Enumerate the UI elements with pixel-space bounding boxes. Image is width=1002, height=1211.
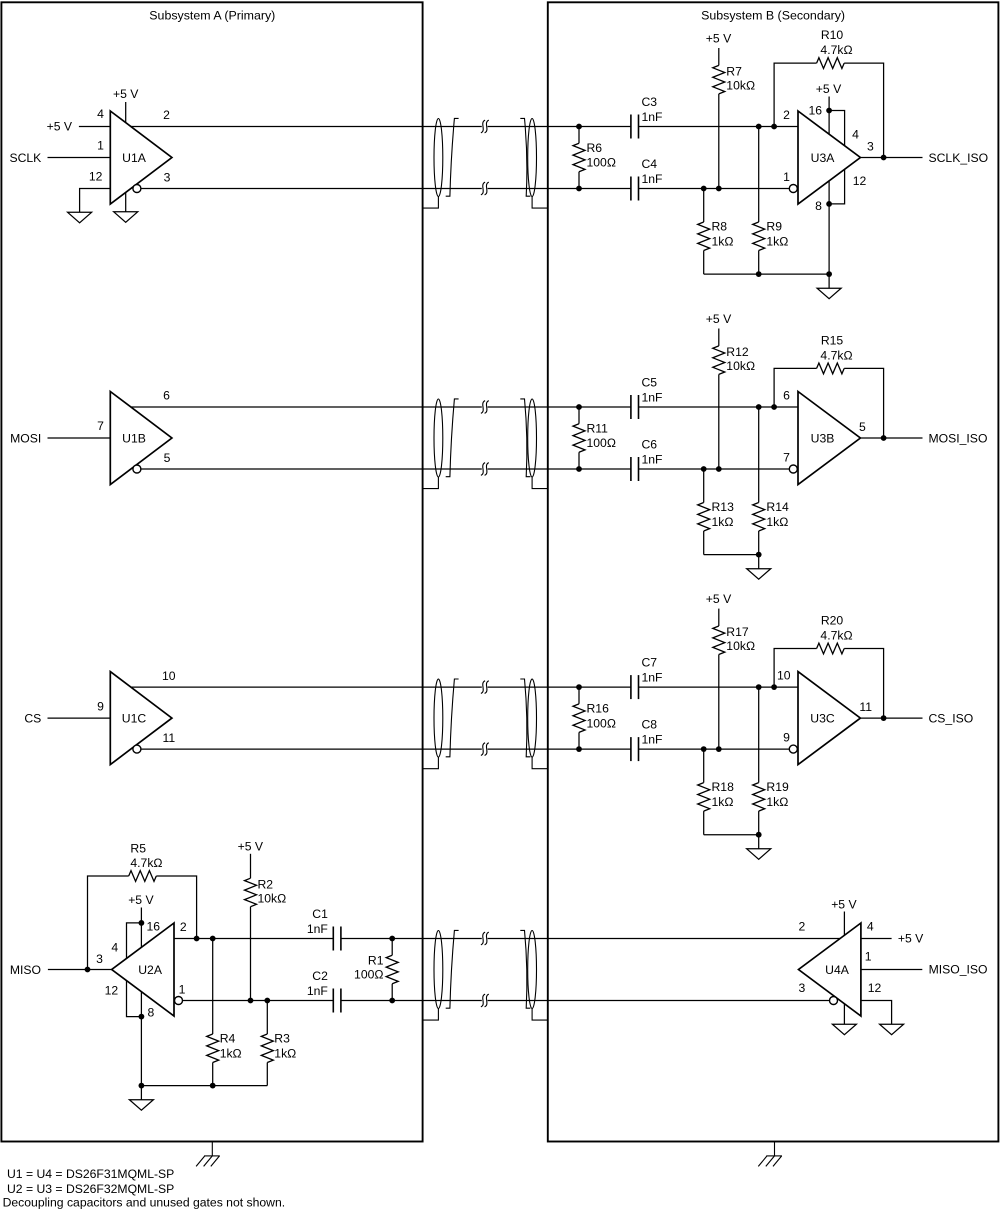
cable row4 left twist ellipse bbox=[434, 931, 443, 1009]
wire ground rail row2 bbox=[704, 554, 759, 556]
svg-text:4: 4 bbox=[97, 107, 104, 121]
resistor R6 termination bbox=[578, 127, 580, 144]
node R20 input junction bbox=[771, 684, 777, 690]
svg-text:10kΩ: 10kΩ bbox=[726, 639, 755, 653]
node R12 junction bbox=[716, 466, 722, 472]
node R5 junction bbox=[194, 936, 200, 942]
wire VCC pin 16 bbox=[828, 97, 830, 135]
wire U2A input A bbox=[174, 938, 333, 940]
wire pin 12 enable (U2A) bbox=[127, 981, 142, 1017]
resistor R5 feedback bbox=[88, 876, 129, 970]
svg-text:R2: R2 bbox=[258, 877, 274, 891]
wire pin 4 enable to +5V bbox=[79, 126, 110, 128]
svg-text:R19: R19 bbox=[766, 780, 789, 794]
cable row1 left shield drain wire bbox=[423, 197, 438, 209]
U4A inverting output bubble bbox=[830, 997, 838, 1005]
svg-text:Subsystem A (Primary): Subsystem A (Primary) bbox=[149, 9, 275, 23]
svg-text:R8: R8 bbox=[712, 220, 728, 234]
svg-text:U1B: U1B bbox=[122, 431, 146, 445]
receiver U3A bbox=[798, 111, 860, 204]
wire U3C input B bbox=[639, 748, 790, 750]
svg-text:7: 7 bbox=[97, 419, 104, 433]
svg-text:+5 V: +5 V bbox=[238, 839, 264, 853]
svg-text:C1: C1 bbox=[312, 907, 328, 921]
svg-text:2: 2 bbox=[799, 920, 806, 934]
svg-text:3: 3 bbox=[96, 952, 103, 966]
svg-text:1kΩ: 1kΩ bbox=[712, 515, 734, 529]
svg-text:+5 V: +5 V bbox=[706, 312, 732, 326]
svg-text:1kΩ: 1kΩ bbox=[766, 795, 788, 809]
svg-text:16: 16 bbox=[808, 104, 822, 118]
node pin16 junction (U2A) bbox=[139, 920, 145, 926]
driver U4A bbox=[799, 923, 861, 1016]
svg-text:6: 6 bbox=[783, 389, 790, 403]
node rail junction R14 bbox=[756, 552, 762, 558]
svg-text:CS: CS bbox=[24, 711, 41, 725]
svg-text:U3C: U3C bbox=[810, 711, 835, 725]
node R8 junction bbox=[701, 186, 707, 192]
node R13 junction bbox=[701, 466, 707, 472]
resistor R19 pulldown bbox=[758, 687, 760, 783]
svg-text:+5 V: +5 V bbox=[706, 592, 732, 606]
svg-text:4: 4 bbox=[852, 128, 859, 142]
resistor R13 pulldown bbox=[703, 469, 705, 503]
wire pin 4 enable bbox=[829, 111, 845, 146]
ground (row 2) bbox=[747, 569, 771, 580]
svg-text:+5 V: +5 V bbox=[706, 31, 732, 45]
svg-text:R9: R9 bbox=[766, 220, 782, 234]
svg-text:1nF: 1nF bbox=[307, 984, 328, 998]
wire row3 pair to caps bottom bbox=[488, 748, 631, 750]
svg-text:R16: R16 bbox=[587, 701, 610, 715]
svg-text:10: 10 bbox=[777, 669, 791, 683]
wire row1 pair to caps top bbox=[488, 126, 631, 128]
svg-text:11: 11 bbox=[162, 731, 175, 745]
wire U3A input A bbox=[639, 126, 799, 128]
svg-text:R5: R5 bbox=[130, 841, 146, 855]
wire U4A input D top bbox=[488, 938, 840, 940]
svg-text:+5 V: +5 V bbox=[831, 897, 857, 911]
cable row3 left shield arc bbox=[446, 679, 459, 757]
cable row1 left twist ellipse bbox=[434, 119, 443, 197]
ground (U1A pin 8) bbox=[114, 212, 138, 223]
capacitor C4 bbox=[630, 177, 632, 201]
wire ground rail row4 bbox=[141, 1085, 267, 1087]
svg-text:4.7kΩ: 4.7kΩ bbox=[820, 628, 852, 642]
wire break top row1 bbox=[481, 120, 485, 133]
wire pin 12 enable bbox=[829, 169, 845, 204]
wire pin 12 to ground (U4A) bbox=[861, 1001, 892, 1025]
cable row4 right twist ellipse bbox=[528, 931, 537, 1009]
ground (U2A) bbox=[129, 1100, 153, 1111]
svg-text:4.7kΩ: 4.7kΩ bbox=[820, 348, 852, 362]
wire pin 8 to ground (U4A) bbox=[843, 1004, 845, 1024]
wire pin 8 ground bbox=[828, 181, 830, 274]
svg-text:1kΩ: 1kΩ bbox=[766, 234, 788, 248]
wire U1C output Y bbox=[131, 686, 482, 688]
wire SCLK input bbox=[48, 157, 111, 159]
wire break top row4 bbox=[481, 932, 485, 945]
svg-text:4: 4 bbox=[111, 940, 118, 954]
resistor R17 pullup bbox=[718, 609, 720, 626]
wire VCC pin 16 (U2A) bbox=[140, 908, 142, 948]
cable row3 right shield arc bbox=[520, 679, 530, 757]
svg-text:1kΩ: 1kΩ bbox=[274, 1046, 296, 1060]
svg-text:R15: R15 bbox=[821, 334, 844, 348]
svg-text:4: 4 bbox=[867, 920, 874, 934]
svg-text:1: 1 bbox=[783, 170, 790, 184]
node R15 output junction bbox=[881, 435, 887, 441]
wire ground rail row3 bbox=[704, 834, 759, 836]
wire pin 8 to ground bbox=[125, 192, 127, 211]
svg-text:7: 7 bbox=[783, 451, 790, 465]
svg-text:10kΩ: 10kΩ bbox=[726, 79, 755, 93]
cable row1 left shield arc bbox=[446, 118, 459, 196]
resistor R4 pulldown bbox=[212, 939, 214, 1035]
resistor R12 pullup bbox=[718, 329, 720, 346]
wire U3A input B bbox=[639, 188, 790, 190]
svg-text:R17: R17 bbox=[726, 625, 749, 639]
driver U1B bbox=[110, 392, 172, 485]
U1B inverting output bubble bbox=[133, 465, 141, 473]
wire ground stub row2 bbox=[758, 555, 760, 569]
svg-text:R1: R1 bbox=[368, 953, 384, 967]
U2A inverting input bubble bbox=[175, 997, 183, 1005]
capacitor C1 bbox=[332, 927, 334, 951]
node R7 junction bbox=[716, 186, 722, 192]
driver U1C bbox=[110, 672, 172, 765]
node R11 top junction bbox=[576, 404, 582, 410]
svg-text:R14: R14 bbox=[766, 500, 789, 514]
capacitor C2 bbox=[332, 989, 334, 1013]
capacitor C5 bbox=[630, 395, 632, 419]
node rail junction R19 bbox=[756, 832, 762, 838]
svg-text:U3A: U3A bbox=[811, 151, 836, 165]
U3B inverting input bubble bbox=[789, 465, 797, 473]
node R19 junction bbox=[756, 684, 762, 690]
svg-text:U1C: U1C bbox=[122, 711, 147, 725]
svg-text:C6: C6 bbox=[642, 438, 658, 452]
resistor R8 pulldown bbox=[703, 189, 705, 223]
svg-text:C3: C3 bbox=[642, 95, 658, 109]
wire MOSI input bbox=[48, 437, 111, 439]
svg-text:U2A: U2A bbox=[138, 963, 163, 977]
svg-text:2: 2 bbox=[163, 108, 170, 122]
svg-text:R20: R20 bbox=[821, 614, 844, 628]
wire VCC pin 16 (U4A) bbox=[843, 912, 845, 936]
node U2A output junction bbox=[85, 967, 91, 973]
svg-text:U4A: U4A bbox=[825, 963, 850, 977]
svg-text:MOSI: MOSI bbox=[10, 431, 41, 445]
capacitor C7 bbox=[630, 675, 632, 699]
cable row2 right shield arc bbox=[520, 399, 530, 477]
svg-text:C4: C4 bbox=[642, 157, 658, 171]
wire row3 pair to caps top bbox=[488, 686, 631, 688]
ground (U4A pin 12) bbox=[880, 1024, 904, 1035]
wire pin 4 enable (U4A) bbox=[861, 938, 892, 940]
svg-text:1kΩ: 1kΩ bbox=[766, 515, 788, 529]
wire MISO output bbox=[48, 969, 112, 971]
svg-text:+5 V: +5 V bbox=[128, 893, 154, 907]
wire ground stub row3 bbox=[758, 835, 760, 849]
U1C inverting output bubble bbox=[133, 745, 141, 753]
svg-text:3: 3 bbox=[164, 170, 171, 184]
wire pin 12 to ground bbox=[80, 189, 111, 213]
svg-text:U1 = U4 = DS26F31MQML-SP: U1 = U4 = DS26F31MQML-SP bbox=[7, 1167, 174, 1181]
wire U3B input B bbox=[639, 468, 790, 470]
svg-text:R13: R13 bbox=[712, 500, 735, 514]
wire CS input bbox=[48, 717, 111, 719]
wire row2 pair to caps bottom bbox=[488, 468, 631, 470]
svg-text:1nF: 1nF bbox=[642, 733, 663, 747]
cable row3 right shield drain wire bbox=[532, 757, 548, 769]
node R17 junction bbox=[716, 746, 722, 752]
node R20 output junction bbox=[881, 715, 887, 721]
cable row1 right twist ellipse bbox=[528, 119, 537, 197]
svg-text:8: 8 bbox=[148, 1006, 155, 1020]
node R1 top junction bbox=[389, 936, 395, 942]
svg-text:MISO: MISO bbox=[10, 963, 41, 977]
svg-text:6: 6 bbox=[163, 389, 170, 403]
svg-text:MOSI_ISO: MOSI_ISO bbox=[929, 431, 988, 445]
svg-text:9: 9 bbox=[783, 731, 790, 745]
svg-text:1kΩ: 1kΩ bbox=[712, 795, 734, 809]
wire U1A output Z bbox=[141, 188, 482, 190]
svg-text:1nF: 1nF bbox=[642, 671, 663, 685]
ground (row 3) bbox=[747, 849, 771, 860]
wire break top row3 bbox=[481, 681, 485, 694]
svg-text:C2: C2 bbox=[312, 969, 328, 983]
node rail junction R4 bbox=[210, 1083, 216, 1089]
svg-text:8: 8 bbox=[815, 199, 822, 213]
svg-text:5: 5 bbox=[164, 451, 171, 465]
node R15 input junction bbox=[771, 404, 777, 410]
wire U3A output bbox=[860, 157, 922, 159]
U1A inverting output bubble bbox=[133, 185, 141, 193]
resistor R20 feedback bbox=[774, 649, 817, 688]
resistor R18 pulldown bbox=[703, 749, 705, 783]
svg-text:C7: C7 bbox=[642, 656, 658, 670]
svg-text:2: 2 bbox=[180, 920, 187, 934]
resistor R11 termination bbox=[578, 407, 580, 424]
receiver U3B bbox=[798, 392, 860, 485]
svg-text:CS_ISO: CS_ISO bbox=[929, 711, 974, 725]
U3C inverting input bubble bbox=[789, 745, 797, 753]
svg-text:Subsystem B (Secondary): Subsystem B (Secondary) bbox=[701, 9, 845, 23]
svg-text:1nF: 1nF bbox=[642, 453, 663, 467]
svg-text:3: 3 bbox=[799, 981, 806, 995]
wire row1 pair to caps bottom bbox=[488, 188, 631, 190]
node R11 bottom junction bbox=[576, 466, 582, 472]
wire U3C output bbox=[860, 717, 922, 719]
svg-text:+5 V: +5 V bbox=[898, 932, 924, 946]
wire U1B output Z bbox=[141, 468, 482, 470]
svg-text:+5 V: +5 V bbox=[113, 87, 139, 101]
cable row3 left shield drain wire bbox=[423, 757, 438, 769]
node R4 junction bbox=[210, 936, 216, 942]
svg-text:1: 1 bbox=[179, 983, 186, 997]
svg-text:1: 1 bbox=[97, 139, 104, 153]
node R10 input junction bbox=[771, 124, 777, 130]
chassis ground (subsystem A) bbox=[211, 1142, 213, 1156]
resistor R10 feedback bbox=[774, 63, 817, 126]
cable row4 left shield drain wire bbox=[423, 1009, 438, 1021]
node R1 bottom junction bbox=[389, 998, 395, 1004]
resistor R3 pulldown bbox=[266, 1001, 268, 1035]
node rail junction R9 bbox=[756, 271, 762, 277]
chassis ground (subsystem B) bbox=[774, 1142, 776, 1156]
cable row4 right shield drain wire bbox=[532, 1009, 548, 1021]
svg-text:12: 12 bbox=[853, 174, 867, 188]
svg-text:R7: R7 bbox=[726, 65, 742, 79]
svg-text:1nF: 1nF bbox=[307, 922, 328, 936]
cable row1 right shield arc bbox=[520, 118, 530, 196]
svg-text:10: 10 bbox=[162, 669, 176, 683]
svg-text:3: 3 bbox=[867, 140, 874, 154]
wire ground rail row1 bbox=[704, 273, 829, 275]
svg-text:SCLK_ISO: SCLK_ISO bbox=[929, 151, 989, 165]
node R6 bottom junction bbox=[576, 186, 582, 192]
svg-text:C5: C5 bbox=[642, 376, 658, 390]
svg-text:1: 1 bbox=[865, 950, 872, 964]
svg-text:12: 12 bbox=[105, 983, 119, 997]
svg-text:12: 12 bbox=[868, 981, 882, 995]
node R2 junction bbox=[248, 998, 254, 1004]
wire VCC pin 16 bbox=[125, 102, 127, 123]
subsystem B box bbox=[548, 2, 999, 1141]
wire U3B input A bbox=[639, 406, 799, 408]
svg-text:R12: R12 bbox=[726, 345, 749, 359]
wire ground stub row4 bbox=[140, 1086, 142, 1100]
cable row1 right shield drain wire bbox=[532, 197, 548, 209]
svg-text:R11: R11 bbox=[587, 421, 609, 435]
cable row2 right twist ellipse bbox=[528, 399, 537, 477]
resistor R2 pullup bbox=[250, 854, 252, 878]
wire break bottom row4 bbox=[481, 994, 485, 1007]
node R3 junction bbox=[264, 998, 270, 1004]
svg-text:100Ω: 100Ω bbox=[587, 716, 616, 730]
cable row4 left shield arc bbox=[446, 930, 459, 1008]
resistor R7 pullup bbox=[718, 48, 720, 65]
svg-text:4.7kΩ: 4.7kΩ bbox=[820, 43, 852, 57]
node pin16 junction bbox=[826, 108, 832, 114]
cable row3 left twist ellipse bbox=[434, 679, 443, 757]
node R9 junction bbox=[756, 124, 762, 130]
wire C2 to cable bbox=[341, 1000, 482, 1002]
svg-text:5: 5 bbox=[859, 420, 866, 434]
capacitor C3 bbox=[630, 115, 632, 139]
wire break bottom row1 bbox=[481, 182, 485, 195]
svg-text:R10: R10 bbox=[821, 28, 844, 42]
svg-text:100Ω: 100Ω bbox=[587, 436, 616, 450]
wire U1B output Y bbox=[131, 406, 482, 408]
node rail junction pin8 bbox=[826, 271, 832, 277]
node R10 output junction bbox=[881, 155, 887, 161]
wire ground stub bbox=[828, 274, 830, 288]
svg-text:1kΩ: 1kΩ bbox=[712, 234, 734, 248]
svg-text:10kΩ: 10kΩ bbox=[258, 891, 287, 905]
svg-text:R4: R4 bbox=[220, 1032, 236, 1046]
wire U1A output Y bbox=[131, 126, 482, 128]
resistor R15 feedback bbox=[774, 368, 817, 407]
svg-text:C8: C8 bbox=[642, 718, 658, 732]
svg-text:U3B: U3B bbox=[811, 431, 835, 445]
ground (U4A pin 8) bbox=[832, 1024, 856, 1035]
ground (U3A) bbox=[817, 288, 841, 299]
node rail junction pin8 (U2A) bbox=[139, 1083, 145, 1089]
wire U4A input to bubble bbox=[488, 1000, 831, 1002]
svg-text:12: 12 bbox=[89, 169, 103, 183]
cable row2 left twist ellipse bbox=[434, 399, 443, 477]
ground (U1A pin 12) bbox=[68, 212, 92, 223]
svg-text:9: 9 bbox=[97, 699, 104, 713]
wire pin 4 enable (U2A) bbox=[127, 923, 142, 959]
svg-text:100Ω: 100Ω bbox=[354, 967, 383, 981]
svg-text:11: 11 bbox=[859, 700, 872, 714]
node R14 junction bbox=[756, 404, 762, 410]
resistor R14 pulldown bbox=[758, 407, 760, 503]
cable row3 right twist ellipse bbox=[528, 679, 537, 757]
wire U1C output Z bbox=[141, 748, 482, 750]
svg-text:100Ω: 100Ω bbox=[587, 156, 616, 170]
svg-text:+5 V: +5 V bbox=[816, 82, 842, 96]
capacitor C6 bbox=[630, 457, 632, 481]
svg-text:SCLK: SCLK bbox=[9, 151, 41, 165]
svg-text:2: 2 bbox=[783, 108, 790, 122]
wire U3C input A bbox=[639, 686, 799, 688]
node R16 bottom junction bbox=[576, 746, 582, 752]
receiver U3C bbox=[798, 672, 860, 765]
subsystem A box bbox=[1, 2, 422, 1141]
node pin8 junction bbox=[826, 201, 832, 207]
wire break top row2 bbox=[481, 401, 485, 414]
wire U2A input B bbox=[183, 1000, 334, 1002]
node pin8 junction (U2A) bbox=[139, 1014, 145, 1020]
node R18 junction bbox=[701, 746, 707, 752]
receiver U2A bbox=[112, 923, 174, 1016]
wire U4A input pin 1 bbox=[861, 969, 922, 971]
svg-text:R6: R6 bbox=[587, 141, 603, 155]
wire break bottom row3 bbox=[481, 743, 485, 756]
svg-text:1nF: 1nF bbox=[642, 391, 663, 405]
node R16 top junction bbox=[576, 684, 582, 690]
U3A inverting input bubble bbox=[789, 185, 797, 193]
svg-text:1nF: 1nF bbox=[642, 110, 663, 124]
svg-text:R3: R3 bbox=[274, 1032, 290, 1046]
svg-text:R18: R18 bbox=[712, 780, 735, 794]
svg-text:1nF: 1nF bbox=[642, 172, 663, 186]
cable row2 left shield drain wire bbox=[423, 477, 438, 489]
svg-text:4.7kΩ: 4.7kΩ bbox=[130, 856, 162, 870]
driver U1A bbox=[110, 111, 172, 204]
cable row2 right shield drain wire bbox=[532, 477, 548, 489]
svg-text:U2 = U3 = DS26F32MQML-SP: U2 = U3 = DS26F32MQML-SP bbox=[7, 1182, 174, 1196]
svg-text:16: 16 bbox=[147, 920, 161, 934]
node R6 top junction bbox=[576, 124, 582, 130]
svg-text:U1A: U1A bbox=[122, 151, 147, 165]
svg-text:+5 V: +5 V bbox=[47, 119, 73, 133]
cable row2 left shield arc bbox=[446, 399, 459, 477]
svg-text:Decoupling capacitors and unus: Decoupling capacitors and unused gates n… bbox=[3, 1195, 286, 1209]
wire U3B output bbox=[860, 437, 922, 439]
capacitor C8 bbox=[630, 737, 632, 761]
wire break bottom row2 bbox=[481, 463, 485, 476]
wire C1 to cable bbox=[341, 938, 482, 940]
svg-text:10kΩ: 10kΩ bbox=[726, 359, 755, 373]
resistor R16 termination bbox=[578, 687, 580, 704]
wire row2 pair to caps top bbox=[488, 406, 631, 408]
wire pin 8 ground (U2A) bbox=[140, 992, 142, 1086]
